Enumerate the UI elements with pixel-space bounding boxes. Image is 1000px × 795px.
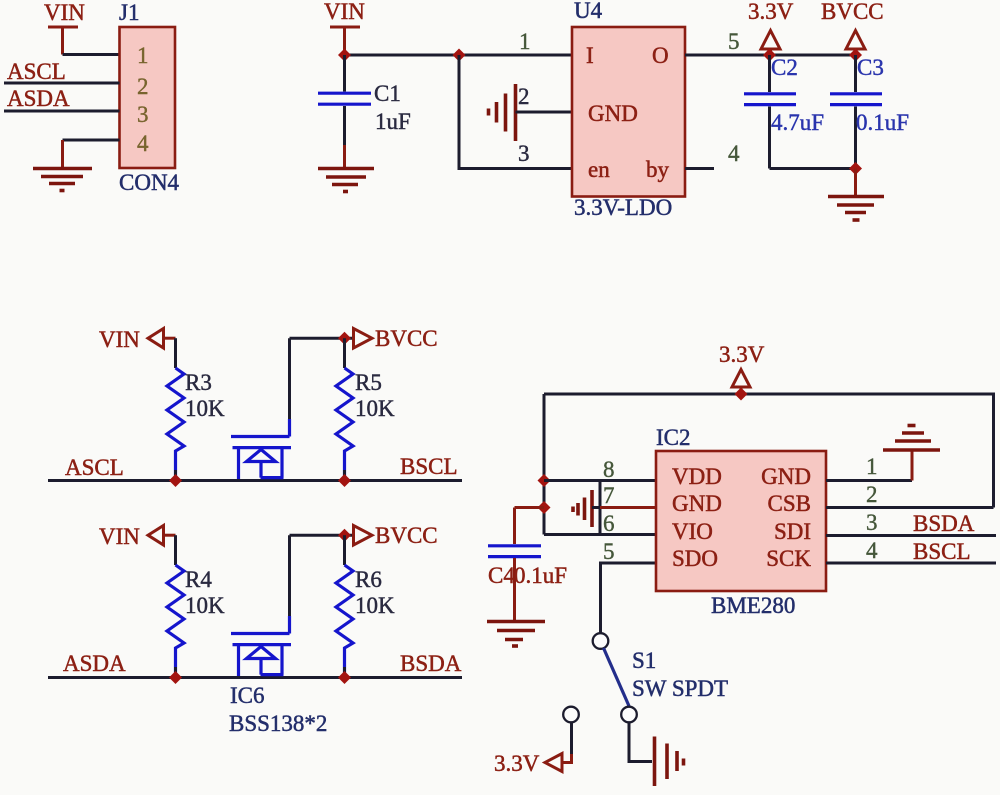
svg-text:3.3V: 3.3V — [494, 751, 540, 776]
wire R4 bottom — [174, 667, 177, 678]
mosfet Q1 (BSS138 a) — [231, 437, 291, 480]
svg-text:10K: 10K — [355, 593, 395, 618]
svg-text:10K: 10K — [355, 396, 395, 421]
resistor R3 — [167, 368, 184, 478]
svg-text:C2: C2 — [771, 55, 798, 80]
svg-text:3: 3 — [137, 102, 149, 127]
svg-text:BSDA: BSDA — [400, 651, 462, 676]
svg-text:4: 4 — [866, 538, 878, 563]
svg-text:I: I — [586, 43, 594, 68]
svg-text:IC6: IC6 — [230, 683, 265, 708]
regulator U4 body — [572, 27, 685, 197]
wire left rail — [543, 394, 546, 535]
switch S1 contact lower — [563, 707, 579, 723]
wire R5 top — [343, 338, 346, 368]
svg-text:O: O — [652, 43, 669, 68]
svg-text:1: 1 — [137, 43, 149, 68]
svg-text:8: 8 — [603, 457, 615, 482]
wire common to ground — [629, 722, 652, 762]
junction cap ground — [849, 162, 862, 175]
svg-text:ASDA: ASDA — [63, 651, 126, 676]
svg-text:0.1uF: 0.1uF — [514, 563, 567, 588]
wire R3 top — [174, 338, 177, 368]
svg-text:CON4: CON4 — [119, 170, 180, 195]
wire pin3 SDI — [826, 534, 996, 537]
svg-text:IC2: IC2 — [656, 425, 691, 450]
power bar VIN — [330, 27, 360, 55]
svg-text:VIO: VIO — [672, 519, 713, 544]
power arrow BVCC — [846, 31, 865, 56]
ground C3 — [828, 197, 884, 221]
junction 3.3V rail — [735, 388, 748, 401]
capacitor C1 — [318, 55, 371, 169]
svg-text:VIN: VIN — [44, 0, 85, 25]
ground C4 — [487, 622, 545, 647]
sensor IC2 body — [656, 451, 826, 591]
power arrow VIN (left) — [148, 329, 176, 349]
power arrow 3.3V — [761, 31, 780, 56]
svg-text:3.3V: 3.3V — [719, 342, 765, 367]
switch S1 contact common — [621, 707, 637, 723]
svg-text:7: 7 — [603, 483, 615, 508]
svg-text:BSS138*2: BSS138*2 — [229, 711, 327, 736]
svg-text:1: 1 — [519, 29, 531, 54]
junction VDD — [538, 474, 551, 487]
power arrow 3.3V (left) — [545, 754, 562, 772]
svg-text:3: 3 — [866, 510, 878, 535]
connector J1 body — [120, 27, 176, 168]
svg-text:R5: R5 — [355, 370, 382, 395]
power bar VIN — [48, 27, 78, 55]
svg-text:4.7uF: 4.7uF — [771, 110, 824, 135]
wire U4 output — [685, 54, 856, 57]
junction BSDA — [338, 671, 351, 684]
svg-text:J1: J1 — [119, 0, 139, 25]
wire ASDA-BSDA — [48, 676, 462, 679]
wire pin8 VDD — [544, 479, 656, 482]
wire C4 branch — [515, 506, 545, 509]
svg-text:ASCL: ASCL — [65, 455, 124, 480]
svg-text:2: 2 — [137, 74, 149, 99]
wire pin4 by stub — [685, 167, 714, 170]
svg-text:BSDA: BSDA — [913, 511, 975, 536]
junction C4 — [538, 501, 551, 514]
wire BVCC link — [290, 337, 354, 340]
svg-text:by: by — [646, 157, 670, 182]
junction R5 top — [338, 332, 351, 345]
wire to ground — [61, 140, 64, 169]
resistor R4 — [167, 565, 184, 675]
wire pin4 J1 — [63, 139, 120, 142]
wire R6 bottom — [343, 667, 346, 678]
resistor R6 — [336, 565, 353, 675]
capacitor C4 — [488, 508, 541, 622]
wire vertical link pins 8-6 — [599, 481, 602, 535]
wire ASCL — [4, 82, 120, 85]
svg-text:3: 3 — [518, 141, 530, 166]
svg-text:VDD: VDD — [672, 464, 722, 489]
svg-text:R3: R3 — [185, 370, 212, 395]
junction R6 top — [338, 529, 351, 542]
svg-text:ASCL: ASCL — [7, 59, 66, 84]
wire gate riser Q1 — [288, 338, 291, 436]
switch S1 lever — [604, 648, 630, 706]
svg-text:4: 4 — [728, 141, 740, 166]
svg-text:3.3V: 3.3V — [748, 0, 794, 24]
wire R3 bottom — [174, 470, 177, 481]
svg-text:1uF: 1uF — [375, 109, 411, 134]
svg-text:6: 6 — [603, 511, 615, 536]
power arrow BVCC (right) — [354, 526, 373, 546]
wire pin1 J1 — [63, 53, 120, 56]
wire VIN to U4 input — [345, 54, 573, 57]
svg-text:5: 5 — [728, 29, 740, 54]
svg-text:1: 1 — [866, 454, 878, 479]
svg-text:S1: S1 — [632, 648, 656, 673]
svg-text:SCK: SCK — [766, 546, 811, 571]
svg-text:10K: 10K — [185, 396, 225, 421]
svg-text:2: 2 — [866, 482, 878, 507]
ground at U4 pin2 (left pointing) — [489, 84, 516, 141]
ground at pin7 (left pointing) — [573, 490, 592, 527]
svg-text:VIN: VIN — [324, 0, 365, 24]
power arrow 3.3V — [732, 370, 750, 395]
wire pin2 CSB — [826, 506, 994, 509]
svg-text:5: 5 — [603, 539, 615, 564]
svg-text:0.1uF: 0.1uF — [856, 110, 909, 135]
wire BVCC link — [290, 534, 354, 537]
svg-text:VIN: VIN — [99, 327, 140, 352]
wire pin5 SDO — [601, 563, 657, 634]
svg-text:R4: R4 — [185, 567, 212, 592]
svg-text:GND: GND — [672, 491, 722, 516]
svg-text:ASDA: ASDA — [7, 86, 70, 111]
svg-text:CSB: CSB — [768, 491, 811, 516]
svg-text:SDI: SDI — [774, 519, 811, 544]
junction BVCC — [849, 49, 862, 62]
mosfet Q2 (BSS138 b) — [231, 634, 291, 677]
svg-text:en: en — [588, 157, 610, 182]
svg-text:BME280: BME280 — [711, 593, 795, 618]
wire to ground — [854, 169, 857, 197]
svg-text:BSCL: BSCL — [400, 454, 458, 479]
wire R5 bottom — [343, 470, 346, 481]
wire ASCL-BSCL — [48, 479, 462, 482]
svg-text:VIN: VIN — [99, 524, 140, 549]
svg-text:10K: 10K — [185, 593, 225, 618]
wire ground riser — [911, 450, 914, 481]
svg-text:U4: U4 — [574, 0, 603, 23]
svg-text:SW SPDT: SW SPDT — [632, 676, 728, 701]
ground pin1 (up pointing) — [883, 426, 940, 451]
wire pin6 VIO — [544, 533, 656, 536]
svg-text:3.3V-LDO: 3.3V-LDO — [574, 195, 672, 220]
junction ASCL — [169, 474, 182, 487]
capacitor C3 — [830, 55, 882, 169]
ground S1 (right pointing) — [655, 737, 684, 787]
wire pin1 GND — [826, 479, 912, 482]
ground C1 — [318, 169, 374, 192]
wire cap bottoms — [770, 167, 856, 170]
svg-text:BVCC: BVCC — [375, 326, 438, 351]
svg-text:4: 4 — [137, 131, 149, 156]
svg-text:C3: C3 — [857, 55, 884, 80]
wire ASDA — [4, 110, 120, 113]
svg-text:C4: C4 — [488, 563, 515, 588]
svg-text:2: 2 — [518, 84, 530, 109]
svg-text:BVCC: BVCC — [375, 523, 438, 548]
svg-text:BVCC: BVCC — [821, 0, 884, 24]
wire en branch — [459, 55, 572, 169]
svg-text:GND: GND — [588, 101, 638, 126]
power arrow BVCC (right) — [354, 329, 373, 349]
svg-text:BSCL: BSCL — [913, 539, 971, 564]
wire R4 top — [174, 535, 177, 565]
junction at en branch — [453, 49, 466, 62]
junction BSCL — [338, 474, 351, 487]
wire pin2 GND — [516, 111, 573, 114]
switch S1 contact top — [593, 633, 609, 649]
svg-text:SDO: SDO — [672, 546, 718, 571]
wire top rail — [544, 394, 994, 508]
wire pin4 SCK — [826, 562, 996, 565]
svg-text:C1: C1 — [374, 81, 401, 106]
wire pin7 GND — [592, 506, 656, 509]
wire R6 top — [343, 535, 346, 565]
resistor R5 — [336, 368, 353, 478]
junction ASDA — [169, 671, 182, 684]
wire gate riser Q2 — [288, 535, 291, 633]
capacitor C2 — [744, 55, 796, 169]
svg-text:R6: R6 — [355, 567, 382, 592]
ground J1 — [33, 169, 92, 191]
junction at C1 — [338, 49, 351, 62]
power arrow VIN (left) — [148, 526, 176, 546]
junction 3.3V — [763, 49, 776, 62]
wire lower contact to 3.3V — [561, 722, 572, 763]
svg-text:GND: GND — [761, 464, 811, 489]
